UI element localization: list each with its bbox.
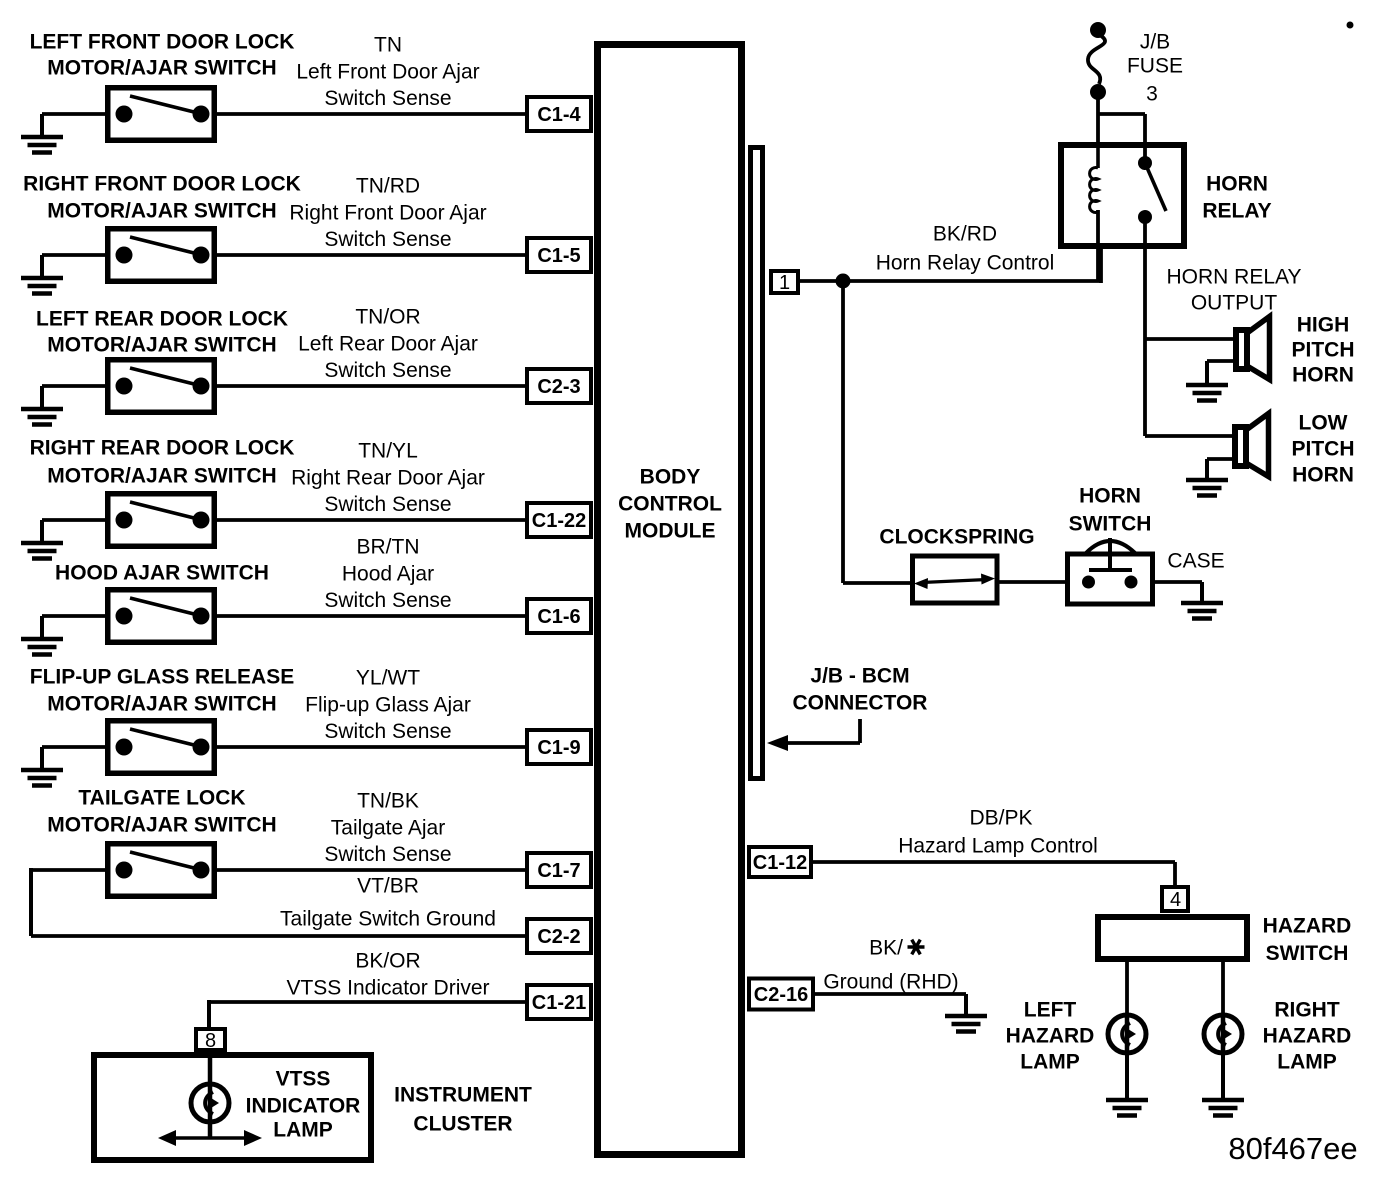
svg-text:Left Rear Door Ajar: Left Rear Door Ajar: [298, 333, 478, 356]
svg-text:Switch Sense: Switch Sense: [324, 720, 451, 743]
svg-text:TN/YL: TN/YL: [358, 440, 418, 463]
svg-text:Switch Sense: Switch Sense: [324, 87, 451, 110]
svg-text:C2-16: C2-16: [754, 984, 808, 1006]
svg-text:C2-3: C2-3: [537, 376, 580, 398]
svg-text:FUSE: FUSE: [1127, 55, 1183, 78]
svg-text:Tailgate Ajar: Tailgate Ajar: [331, 817, 445, 840]
svg-text:HORN: HORN: [1206, 173, 1268, 196]
svg-text:Switch Sense: Switch Sense: [324, 493, 451, 516]
svg-text:LEFT: LEFT: [1024, 999, 1077, 1022]
svg-text:BODY: BODY: [640, 466, 701, 489]
svg-text:HORN: HORN: [1079, 485, 1141, 508]
svg-text:Hood Ajar: Hood Ajar: [342, 563, 434, 586]
svg-text:CLUSTER: CLUSTER: [413, 1113, 512, 1136]
svg-text:TN/OR: TN/OR: [355, 306, 420, 329]
svg-text:HAZARD: HAZARD: [1006, 1025, 1095, 1048]
svg-text:FLIP-UP GLASS RELEASE: FLIP-UP GLASS RELEASE: [30, 666, 294, 689]
svg-text:Ground (RHD): Ground (RHD): [823, 971, 958, 994]
svg-text:VT/BR: VT/BR: [357, 875, 419, 898]
svg-text:TN/RD: TN/RD: [356, 175, 420, 198]
svg-text:Switch Sense: Switch Sense: [324, 843, 451, 866]
svg-text:MOTOR/AJAR SWITCH: MOTOR/AJAR SWITCH: [47, 814, 276, 837]
svg-text:C1-9: C1-9: [537, 737, 580, 759]
svg-text:INDICATOR: INDICATOR: [246, 1095, 361, 1118]
svg-text:HOOD AJAR SWITCH: HOOD AJAR SWITCH: [55, 562, 269, 585]
svg-text:MOTOR/AJAR SWITCH: MOTOR/AJAR SWITCH: [47, 334, 276, 357]
svg-text:LEFT REAR DOOR LOCK: LEFT REAR DOOR LOCK: [36, 308, 288, 331]
svg-text:Switch Sense: Switch Sense: [324, 359, 451, 382]
svg-text:Switch Sense: Switch Sense: [324, 589, 451, 612]
svg-text:C1-7: C1-7: [537, 860, 580, 882]
svg-text:C1-12: C1-12: [753, 852, 807, 874]
svg-text:MODULE: MODULE: [625, 520, 716, 543]
svg-text:LAMP: LAMP: [273, 1119, 333, 1142]
svg-text:DB/PK: DB/PK: [969, 807, 1032, 830]
svg-text:PITCH: PITCH: [1292, 438, 1355, 461]
svg-text:CASE: CASE: [1167, 550, 1224, 573]
svg-text:Left Front Door Ajar: Left Front Door Ajar: [296, 61, 479, 84]
svg-text:YL/WT: YL/WT: [356, 667, 420, 690]
svg-text:CLOCKSPRING: CLOCKSPRING: [879, 526, 1034, 549]
svg-text:LEFT FRONT DOOR LOCK: LEFT FRONT DOOR LOCK: [30, 31, 295, 54]
svg-text:LAMP: LAMP: [1277, 1051, 1337, 1074]
svg-text:Hazard Lamp Control: Hazard Lamp Control: [898, 835, 1098, 858]
svg-text:BK/: BK/: [869, 937, 903, 960]
svg-text:HAZARD: HAZARD: [1263, 1025, 1352, 1048]
svg-text:BK/OR: BK/OR: [355, 950, 420, 973]
svg-text:Tailgate Switch Ground: Tailgate Switch Ground: [280, 908, 496, 931]
svg-text:Right Front Door Ajar: Right Front Door Ajar: [289, 202, 486, 225]
svg-text:3: 3: [1146, 83, 1158, 106]
svg-text:C2-2: C2-2: [537, 926, 580, 948]
svg-text:4: 4: [1170, 889, 1181, 911]
svg-text:J/B: J/B: [1140, 31, 1170, 54]
svg-text:HORN: HORN: [1292, 364, 1354, 387]
svg-text:LAMP: LAMP: [1020, 1051, 1080, 1074]
svg-text:J/B - BCM: J/B - BCM: [810, 665, 909, 688]
svg-text:BR/TN: BR/TN: [357, 536, 420, 559]
svg-text:HORN RELAY: HORN RELAY: [1167, 266, 1302, 289]
svg-text:Horn Relay Control: Horn Relay Control: [876, 252, 1055, 275]
svg-text:80f467ee: 80f467ee: [1228, 1131, 1357, 1166]
svg-text:BK/RD: BK/RD: [933, 223, 997, 246]
svg-text:VTSS Indicator Driver: VTSS Indicator Driver: [286, 977, 489, 1000]
svg-text:Switch Sense: Switch Sense: [324, 228, 451, 251]
svg-text:LOW: LOW: [1299, 412, 1348, 435]
svg-text:HAZARD: HAZARD: [1263, 915, 1352, 938]
svg-text:RIGHT: RIGHT: [1274, 999, 1340, 1022]
svg-text:HIGH: HIGH: [1297, 314, 1350, 337]
svg-text:C1-21: C1-21: [532, 992, 586, 1014]
svg-text:CONTROL: CONTROL: [618, 493, 722, 516]
svg-text:OUTPUT: OUTPUT: [1191, 292, 1278, 315]
svg-text:MOTOR/AJAR SWITCH: MOTOR/AJAR SWITCH: [47, 693, 276, 716]
svg-text:HORN: HORN: [1292, 464, 1354, 487]
svg-text:Flip-up Glass Ajar: Flip-up Glass Ajar: [305, 694, 471, 717]
svg-text:TN: TN: [374, 34, 402, 57]
svg-text:TAILGATE LOCK: TAILGATE LOCK: [78, 787, 245, 810]
svg-text:1: 1: [779, 272, 790, 294]
svg-text:SWITCH: SWITCH: [1266, 942, 1349, 965]
svg-text:SWITCH: SWITCH: [1069, 513, 1152, 536]
svg-text:MOTOR/AJAR SWITCH: MOTOR/AJAR SWITCH: [47, 465, 276, 488]
svg-text:RIGHT REAR DOOR LOCK: RIGHT REAR DOOR LOCK: [30, 437, 295, 460]
svg-text:INSTRUMENT: INSTRUMENT: [394, 1084, 532, 1107]
svg-text:C1-22: C1-22: [532, 510, 586, 532]
svg-text:PITCH: PITCH: [1292, 339, 1355, 362]
svg-text:8: 8: [205, 1030, 216, 1052]
svg-text:VTSS: VTSS: [276, 1068, 331, 1091]
svg-text:TN/BK: TN/BK: [357, 790, 419, 813]
svg-text:C1-5: C1-5: [537, 245, 580, 267]
svg-text:RELAY: RELAY: [1202, 200, 1271, 223]
svg-text:RIGHT FRONT DOOR LOCK: RIGHT FRONT DOOR LOCK: [23, 173, 301, 196]
svg-text:CONNECTOR: CONNECTOR: [793, 692, 928, 715]
svg-text:MOTOR/AJAR SWITCH: MOTOR/AJAR SWITCH: [47, 200, 276, 223]
svg-text:C1-6: C1-6: [537, 606, 580, 628]
svg-text:C1-4: C1-4: [537, 104, 581, 126]
svg-text:MOTOR/AJAR SWITCH: MOTOR/AJAR SWITCH: [47, 57, 276, 80]
svg-text:Right Rear Door Ajar: Right Rear Door Ajar: [291, 467, 485, 490]
